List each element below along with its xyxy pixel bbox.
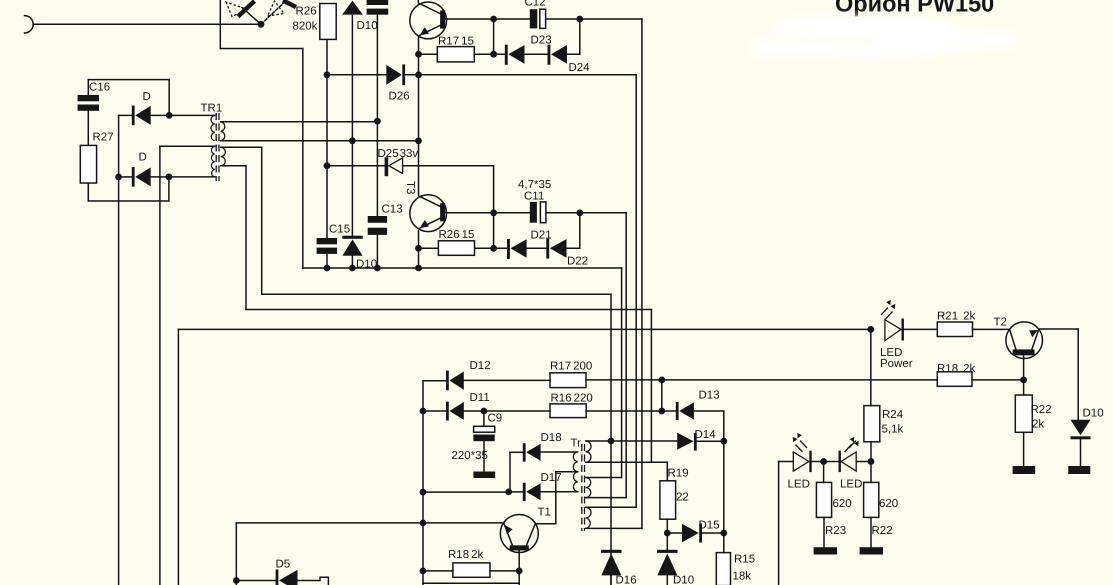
- wire D10a cathode vertical: [351, 15, 353, 236]
- svg-text:R1715: R1715: [438, 36, 474, 48]
- capacitor top (cropped): [367, 0, 389, 5]
- junction R19 bottom: [664, 530, 671, 537]
- junction C11 left / zener drop: [490, 209, 497, 216]
- junction D14 right: [720, 438, 727, 445]
- svg-text:D10: D10: [357, 20, 378, 32]
- junction R182k left: [420, 568, 427, 575]
- transistor T2 emitter arrow: [1029, 330, 1038, 337]
- wire C16 to R27: [87, 111, 89, 146]
- wire long vertical x160: [159, 146, 161, 585]
- junction D26 left: [324, 71, 331, 78]
- removed diode X2 slash: [283, 1, 296, 8]
- svg-text:D: D: [143, 91, 151, 103]
- transistor T3 base bar: [441, 204, 445, 221]
- wire bus y329 full: [178, 328, 870, 330]
- wire T4 base row y19: [445, 18, 530, 20]
- LED 2 symbol: [841, 452, 856, 471]
- wire T1 emitter down: [518, 550, 520, 585]
- svg-text:D17: D17: [541, 472, 562, 484]
- wire x724 D13-D14-D15 vertical: [723, 441, 725, 552]
- junction R2615 right: [490, 245, 497, 252]
- svg-text:C15: C15: [329, 224, 350, 236]
- wire Tr A-bottom long tap: [586, 462, 668, 481]
- svg-text:R15: R15: [734, 554, 755, 566]
- junction R17 left: [415, 51, 422, 58]
- svg-text:D26: D26: [389, 91, 410, 103]
- svg-text:TR1: TR1: [201, 103, 223, 115]
- diode D16: [601, 550, 622, 553]
- svg-text:D11: D11: [470, 392, 490, 404]
- transformer Tr feedback winding g2: [573, 472, 577, 492]
- transistor T3 emitter diag: [419, 218, 441, 229]
- capacitor C12 minus plate: [540, 9, 546, 28]
- transistor T4 emitter arrow: [420, 27, 430, 35]
- wire D-upper to TR1: [151, 114, 215, 116]
- wire vertical x626 (C11 row to Tr B-bottom): [625, 213, 627, 498]
- diode D10 mid: [342, 236, 362, 239]
- transformer TR1 right winding upper: [221, 122, 225, 141]
- capacitor C13: [368, 216, 387, 223]
- resistor R26 820k: [320, 4, 336, 40]
- wire vertical x622 (bus268 to Tr B-top): [621, 268, 623, 478]
- wire diag diode B link: [261, 4, 283, 25]
- svg-text:T2: T2: [994, 317, 1007, 329]
- wire top-left frame vertical: [219, 0, 221, 49]
- svg-text:220*35: 220*35: [452, 450, 488, 462]
- wire TR1 sec2 bottom tap corner: [221, 166, 246, 310]
- svg-text:C12: C12: [525, 0, 546, 9]
- transistor T1 right diag: [526, 524, 535, 546]
- resistor R24 5,1k: [864, 406, 880, 442]
- wire LED2 to node: [856, 461, 871, 463]
- diode D11: [446, 402, 449, 421]
- svg-text:LED: LED: [840, 479, 862, 491]
- resistor R21 2k: [937, 322, 972, 337]
- wire R17-200 out: [586, 379, 662, 381]
- wire D15 row left: [667, 532, 682, 534]
- junction C11 right: [576, 209, 583, 216]
- junction D5 left: [233, 577, 240, 584]
- wire D12 to R17-200: [464, 379, 550, 381]
- wire C12 right to corner: [546, 18, 642, 20]
- wire T3 emitter to bus: [418, 231, 420, 268]
- junction T2 base: [1020, 377, 1027, 384]
- svg-text:C11: C11: [524, 191, 544, 203]
- wire C16 top link: [88, 79, 169, 81]
- junction LED power left: [867, 326, 874, 333]
- wire D26 right to corner: [405, 74, 636, 76]
- svg-text:D10: D10: [673, 575, 694, 585]
- resistor R18 2k right: [937, 372, 972, 387]
- junction D lower right: [166, 174, 173, 181]
- svg-text:LED: LED: [788, 479, 810, 491]
- svg-text:D: D: [139, 152, 147, 164]
- wire R22a bottom: [870, 517, 872, 547]
- junction D26 right: [415, 71, 422, 78]
- LED Power symbol: [885, 320, 901, 341]
- wire top cap vertical x377: [376, 15, 378, 216]
- white smudge (erased watermark): [751, 16, 1020, 59]
- diode D10 bottom mid: [657, 550, 678, 553]
- wire bus y309: [246, 309, 651, 311]
- junction T1 base: [420, 520, 427, 527]
- wire bus y294: [262, 293, 611, 295]
- junction bus268 a: [324, 265, 331, 272]
- diode D14: [677, 433, 693, 450]
- transistor T1 arrow: [504, 525, 512, 535]
- junction R17 right: [490, 51, 497, 58]
- capacitor C12 plus plate: [530, 9, 538, 28]
- wire D18 left vertical x510: [509, 452, 511, 492]
- wire vertical x236: [235, 523, 237, 585]
- transformer TR1 right winding lower: [221, 147, 226, 166]
- junction D11 left: [420, 408, 427, 415]
- diode D23: [505, 45, 508, 65]
- junction D17 feed: [420, 489, 427, 496]
- diode D12: [446, 371, 449, 391]
- svg-text:R212k: R212k: [937, 311, 976, 323]
- wire R182k left: [423, 570, 453, 572]
- wire vertical x651 (bus309 to Tr A-bottom row): [650, 310, 652, 463]
- wire zener right to corner: [403, 166, 494, 249]
- diode D22: [546, 239, 549, 259]
- junction tap x377: [374, 118, 381, 125]
- wire TR1 sec1 bottom tap: [221, 140, 419, 142]
- diode D5: [276, 570, 279, 585]
- transistor T1 circle: [500, 515, 538, 553]
- junction D15 right: [720, 530, 727, 537]
- junction LED1-LED2: [820, 458, 827, 465]
- wire x494 C12 to R17 row: [493, 19, 495, 54]
- diode D24: [548, 45, 551, 65]
- svg-text:D2533v: D2533v: [378, 148, 419, 160]
- transistor T4 collector diag: [418, 3, 441, 14]
- wire x327 R26/C15 vertical: [326, 75, 328, 238]
- wire LED row left corner: [779, 461, 794, 463]
- resistor R22 620: [864, 482, 879, 517]
- wire R24 bottom: [870, 442, 872, 462]
- wire long vertical x178: [177, 329, 179, 585]
- svg-text:D13: D13: [699, 390, 720, 402]
- wire D18 row: [510, 451, 523, 453]
- transistor T1 base bar: [510, 546, 528, 550]
- wire long R18 feed: [662, 379, 938, 381]
- svg-text:R26: R26: [296, 6, 317, 18]
- wire T2 emitter to D10d: [1077, 329, 1079, 420]
- svg-text:2k: 2k: [1032, 419, 1044, 431]
- wire D12 row: [423, 380, 446, 382]
- wire D10d to ground: [1080, 439, 1082, 466]
- transformer TR1 core: [216, 113, 219, 181]
- junction bus268 d: [415, 265, 422, 272]
- svg-text:D5: D5: [276, 559, 291, 571]
- junction LED2 right: [868, 458, 875, 465]
- wire zener row left: [327, 165, 385, 167]
- wire R24 top feed: [870, 329, 872, 405]
- wire long vertical x119: [118, 177, 120, 585]
- transformer Tr primary B: [586, 478, 591, 498]
- wire D18 to winding: [541, 451, 578, 453]
- svg-text:R22: R22: [872, 525, 893, 537]
- transistor T2 circle: [1006, 322, 1043, 359]
- removed diode X1 slash: [238, 1, 255, 17]
- svg-text:D23: D23: [531, 35, 552, 47]
- wire LED1-LED2 link: [811, 461, 838, 463]
- wire R2615 right: [475, 247, 508, 249]
- wire R19 bottom: [666, 519, 668, 533]
- svg-text:D12: D12: [470, 360, 491, 372]
- transformer TR1 left winding lower: [211, 146, 214, 177]
- capacitor C11 plus plate: [530, 202, 537, 223]
- wire R22b bottom: [1023, 432, 1025, 466]
- wire D5 right kink: [296, 577, 329, 585]
- junction zener left: [324, 162, 331, 169]
- diode D13: [676, 402, 679, 420]
- diode D lower: [132, 167, 135, 187]
- wire bottom link: [423, 582, 519, 584]
- svg-text:4,7*35: 4,7*35: [518, 179, 551, 191]
- resistor R23 620: [816, 482, 831, 517]
- wire R16-220 out: [586, 410, 676, 412]
- transistor T4 emitter diag: [419, 25, 441, 36]
- junction bus268 c: [374, 265, 381, 272]
- transistor T4 circle: [410, 2, 447, 39]
- junction bus268 b: [349, 265, 356, 272]
- capacitor C16: [78, 95, 99, 101]
- svg-text:620: 620: [879, 498, 898, 510]
- transformer Tr primary A: [586, 441, 591, 462]
- transformer Tr core: [582, 444, 585, 531]
- wire R18 right: [972, 379, 1024, 381]
- wire T4 emitter vertical x418: [418, 37, 420, 196]
- transformer Tr primary C: [586, 507, 591, 528]
- wire x169 down to D row: [168, 80, 170, 116]
- wire C16 left vertical: [87, 80, 89, 95]
- LED 1 symbol: [793, 452, 809, 471]
- svg-text:D24: D24: [569, 62, 591, 74]
- wire R22a top: [870, 462, 872, 483]
- wire D21-D22 link: [527, 247, 547, 249]
- junction node input: [258, 21, 265, 28]
- input connector arc: [25, 16, 34, 33]
- resistor R26 15: [438, 241, 474, 256]
- transformer TR1 left winding upper: [211, 115, 215, 140]
- wire D5 row: [236, 580, 275, 582]
- junction D17-D18: [505, 489, 512, 496]
- wire D16 bottom: [610, 575, 612, 585]
- removed diode X2 (dashed): [268, 1, 285, 16]
- svg-text:22: 22: [676, 492, 689, 504]
- wire D10c bottom: [666, 575, 668, 585]
- ground C9: [473, 472, 495, 479]
- svg-text:D10: D10: [356, 259, 377, 271]
- capacitor C9 plus plate: [474, 426, 495, 432]
- ground R22 2k: [1013, 466, 1036, 474]
- diode D17: [523, 483, 526, 501]
- wire D17 to winding: [541, 491, 578, 493]
- wire D-upper row: [119, 114, 132, 116]
- wire R27 bottom loop: [88, 177, 169, 201]
- removed diode X1 (dashed): [226, 2, 248, 17]
- wire TR1 mid tap left: [160, 145, 215, 147]
- wire vertical x636 (y75 to Tr C-top): [635, 75, 637, 508]
- wire D10b to bus: [351, 256, 353, 268]
- svg-text:D22: D22: [567, 256, 588, 268]
- wire D-lower to TR1: [151, 176, 215, 178]
- svg-text:R2615: R2615: [439, 229, 475, 241]
- svg-text:T3: T3: [404, 181, 416, 194]
- capacitor C11 minus plate: [540, 202, 546, 223]
- svg-text:18k: 18k: [733, 571, 752, 583]
- transistor T2 left diag: [1010, 329, 1017, 350]
- wire frame bottom to corner: [220, 48, 302, 50]
- junction C12 right: [576, 16, 583, 23]
- wire R23 bottom: [823, 517, 825, 547]
- wire Tr B-bottom tap: [586, 497, 627, 499]
- wire D17 row: [509, 491, 523, 493]
- junction C12 left: [490, 16, 497, 23]
- ground D10 right: [1068, 466, 1090, 474]
- svg-text:D18: D18: [541, 432, 562, 444]
- wire T3 base row to C11: [445, 212, 530, 214]
- wire T4 collector top: [417, 0, 419, 2]
- junction C9 tap: [481, 408, 488, 415]
- wire below C13 to bus: [376, 235, 378, 268]
- wire R22b top: [1023, 380, 1025, 395]
- ground R23: [814, 547, 837, 554]
- wire D22 right riser: [567, 213, 580, 249]
- svg-text:Tr: Tr: [571, 438, 582, 450]
- wire D15 right: [702, 532, 724, 534]
- wire D24 right corner up: [567, 19, 580, 54]
- wire LEDpower to R21: [904, 328, 938, 330]
- wire input to node: [33, 23, 261, 25]
- diode D18: [523, 443, 526, 461]
- svg-text:R182k: R182k: [448, 549, 484, 561]
- resistor R16 220: [550, 404, 586, 418]
- svg-text:T1: T1: [538, 507, 551, 519]
- resistor R18 2k bottom: [453, 563, 490, 577]
- transistor T3 collector diag: [418, 196, 441, 207]
- svg-text:620: 620: [833, 498, 852, 510]
- wire long vertical x779: [778, 462, 780, 585]
- diode D10 right: [1071, 420, 1091, 436]
- svg-text:5,1k: 5,1k: [882, 424, 904, 436]
- transformer Tr feedback winding g1: [573, 452, 577, 472]
- svg-text:R24: R24: [882, 409, 904, 421]
- wire D23-D24 link: [525, 53, 548, 55]
- wire C11 right: [546, 212, 626, 214]
- wire D13 right corner: [694, 411, 724, 441]
- resistor R27: [80, 145, 96, 183]
- svg-text:R27: R27: [93, 132, 114, 144]
- svg-text:C9: C9: [488, 413, 503, 425]
- wire vertical x611 (bus294 to bottom): [610, 294, 612, 585]
- junction tap x352: [349, 137, 356, 144]
- wire R21 to T2: [973, 328, 1010, 330]
- wire D11 row: [423, 410, 446, 412]
- transistor T4 base bar: [441, 11, 445, 28]
- wire TR1 sec1 top tap: [221, 121, 378, 123]
- wire x327 below C15 to bus: [326, 254, 328, 268]
- svg-text:D14: D14: [695, 429, 717, 441]
- svg-text:C16: C16: [89, 82, 110, 94]
- resistor R17 200: [550, 373, 586, 388]
- junction R16-220 out: [658, 408, 665, 415]
- junction Tr A-top: [608, 438, 615, 445]
- wire long vertical x303: [302, 49, 304, 269]
- svg-text:D21: D21: [531, 230, 552, 242]
- svg-text:C13: C13: [382, 204, 403, 216]
- diode D upper: [132, 106, 135, 126]
- svg-text:R182k: R182k: [937, 363, 976, 375]
- wire C9 bottom: [483, 441, 485, 471]
- svg-text:R19: R19: [668, 468, 689, 480]
- wire D12 corner vertical x423: [422, 381, 424, 585]
- diode D15: [682, 524, 699, 543]
- transistor T2 base bar: [1013, 350, 1033, 354]
- diode D21: [507, 239, 510, 259]
- wire D-lower row: [119, 176, 132, 178]
- wire R23 top: [823, 462, 825, 483]
- junction D upper right: [166, 112, 173, 119]
- wire Tr mid tap riser: [535, 472, 577, 524]
- resistor R19 22: [660, 481, 676, 519]
- wire D14 right: [697, 440, 724, 442]
- wire Tr B-top tap: [586, 477, 622, 479]
- wire bus y268: [303, 267, 622, 269]
- wire R2615 left: [419, 247, 439, 249]
- wire T2 emitter out: [1039, 328, 1078, 330]
- wire T2 base down: [1023, 355, 1025, 380]
- wire D-upper left corner: [118, 115, 120, 176]
- wire vertical x642 (C12 to Tr C-bottom): [641, 19, 643, 528]
- svg-text:Power: Power: [880, 358, 913, 370]
- transistor T3 emitter arrow: [420, 220, 430, 228]
- junction R17-200 out: [658, 377, 665, 384]
- junction T3 emitter: [415, 245, 422, 252]
- wire D26 row left: [327, 74, 386, 76]
- transistor T1 left diag: [504, 523, 513, 546]
- wire C9 top: [483, 411, 485, 426]
- junction tap x418: [415, 137, 422, 144]
- wire Tr C-top tap: [586, 506, 637, 508]
- wire D17 feed: [423, 491, 509, 493]
- ground R22 620: [860, 547, 883, 554]
- capacitor C9 minus plate: [473, 435, 494, 442]
- resistor R22 2k: [1015, 395, 1032, 432]
- junction R182k right: [516, 568, 523, 575]
- wire TR1 sec2 top tap corner: [221, 147, 262, 294]
- wire node x662 link: [661, 380, 663, 411]
- wire D10c top link: [666, 533, 668, 550]
- wire R17 left: [419, 53, 438, 55]
- svg-text:820k: 820k: [293, 21, 318, 33]
- wire R182k right: [490, 570, 519, 572]
- junction D lower left: [115, 174, 122, 181]
- resistor R17 15: [437, 47, 474, 62]
- svg-text:R22: R22: [1031, 404, 1052, 416]
- wire diag diode A link: [242, 8, 261, 25]
- zener D25 33v: [385, 157, 403, 176]
- svg-text:D16: D16: [616, 575, 637, 585]
- wire R17 right to D23: [474, 53, 505, 55]
- resistor R15 18k: [716, 553, 730, 585]
- diode D26: [386, 65, 402, 85]
- wire Tr A-top row (to D14): [586, 440, 678, 442]
- svg-text:Орион PW150: Орион PW150: [835, 0, 994, 17]
- transistor T3 circle: [410, 195, 447, 232]
